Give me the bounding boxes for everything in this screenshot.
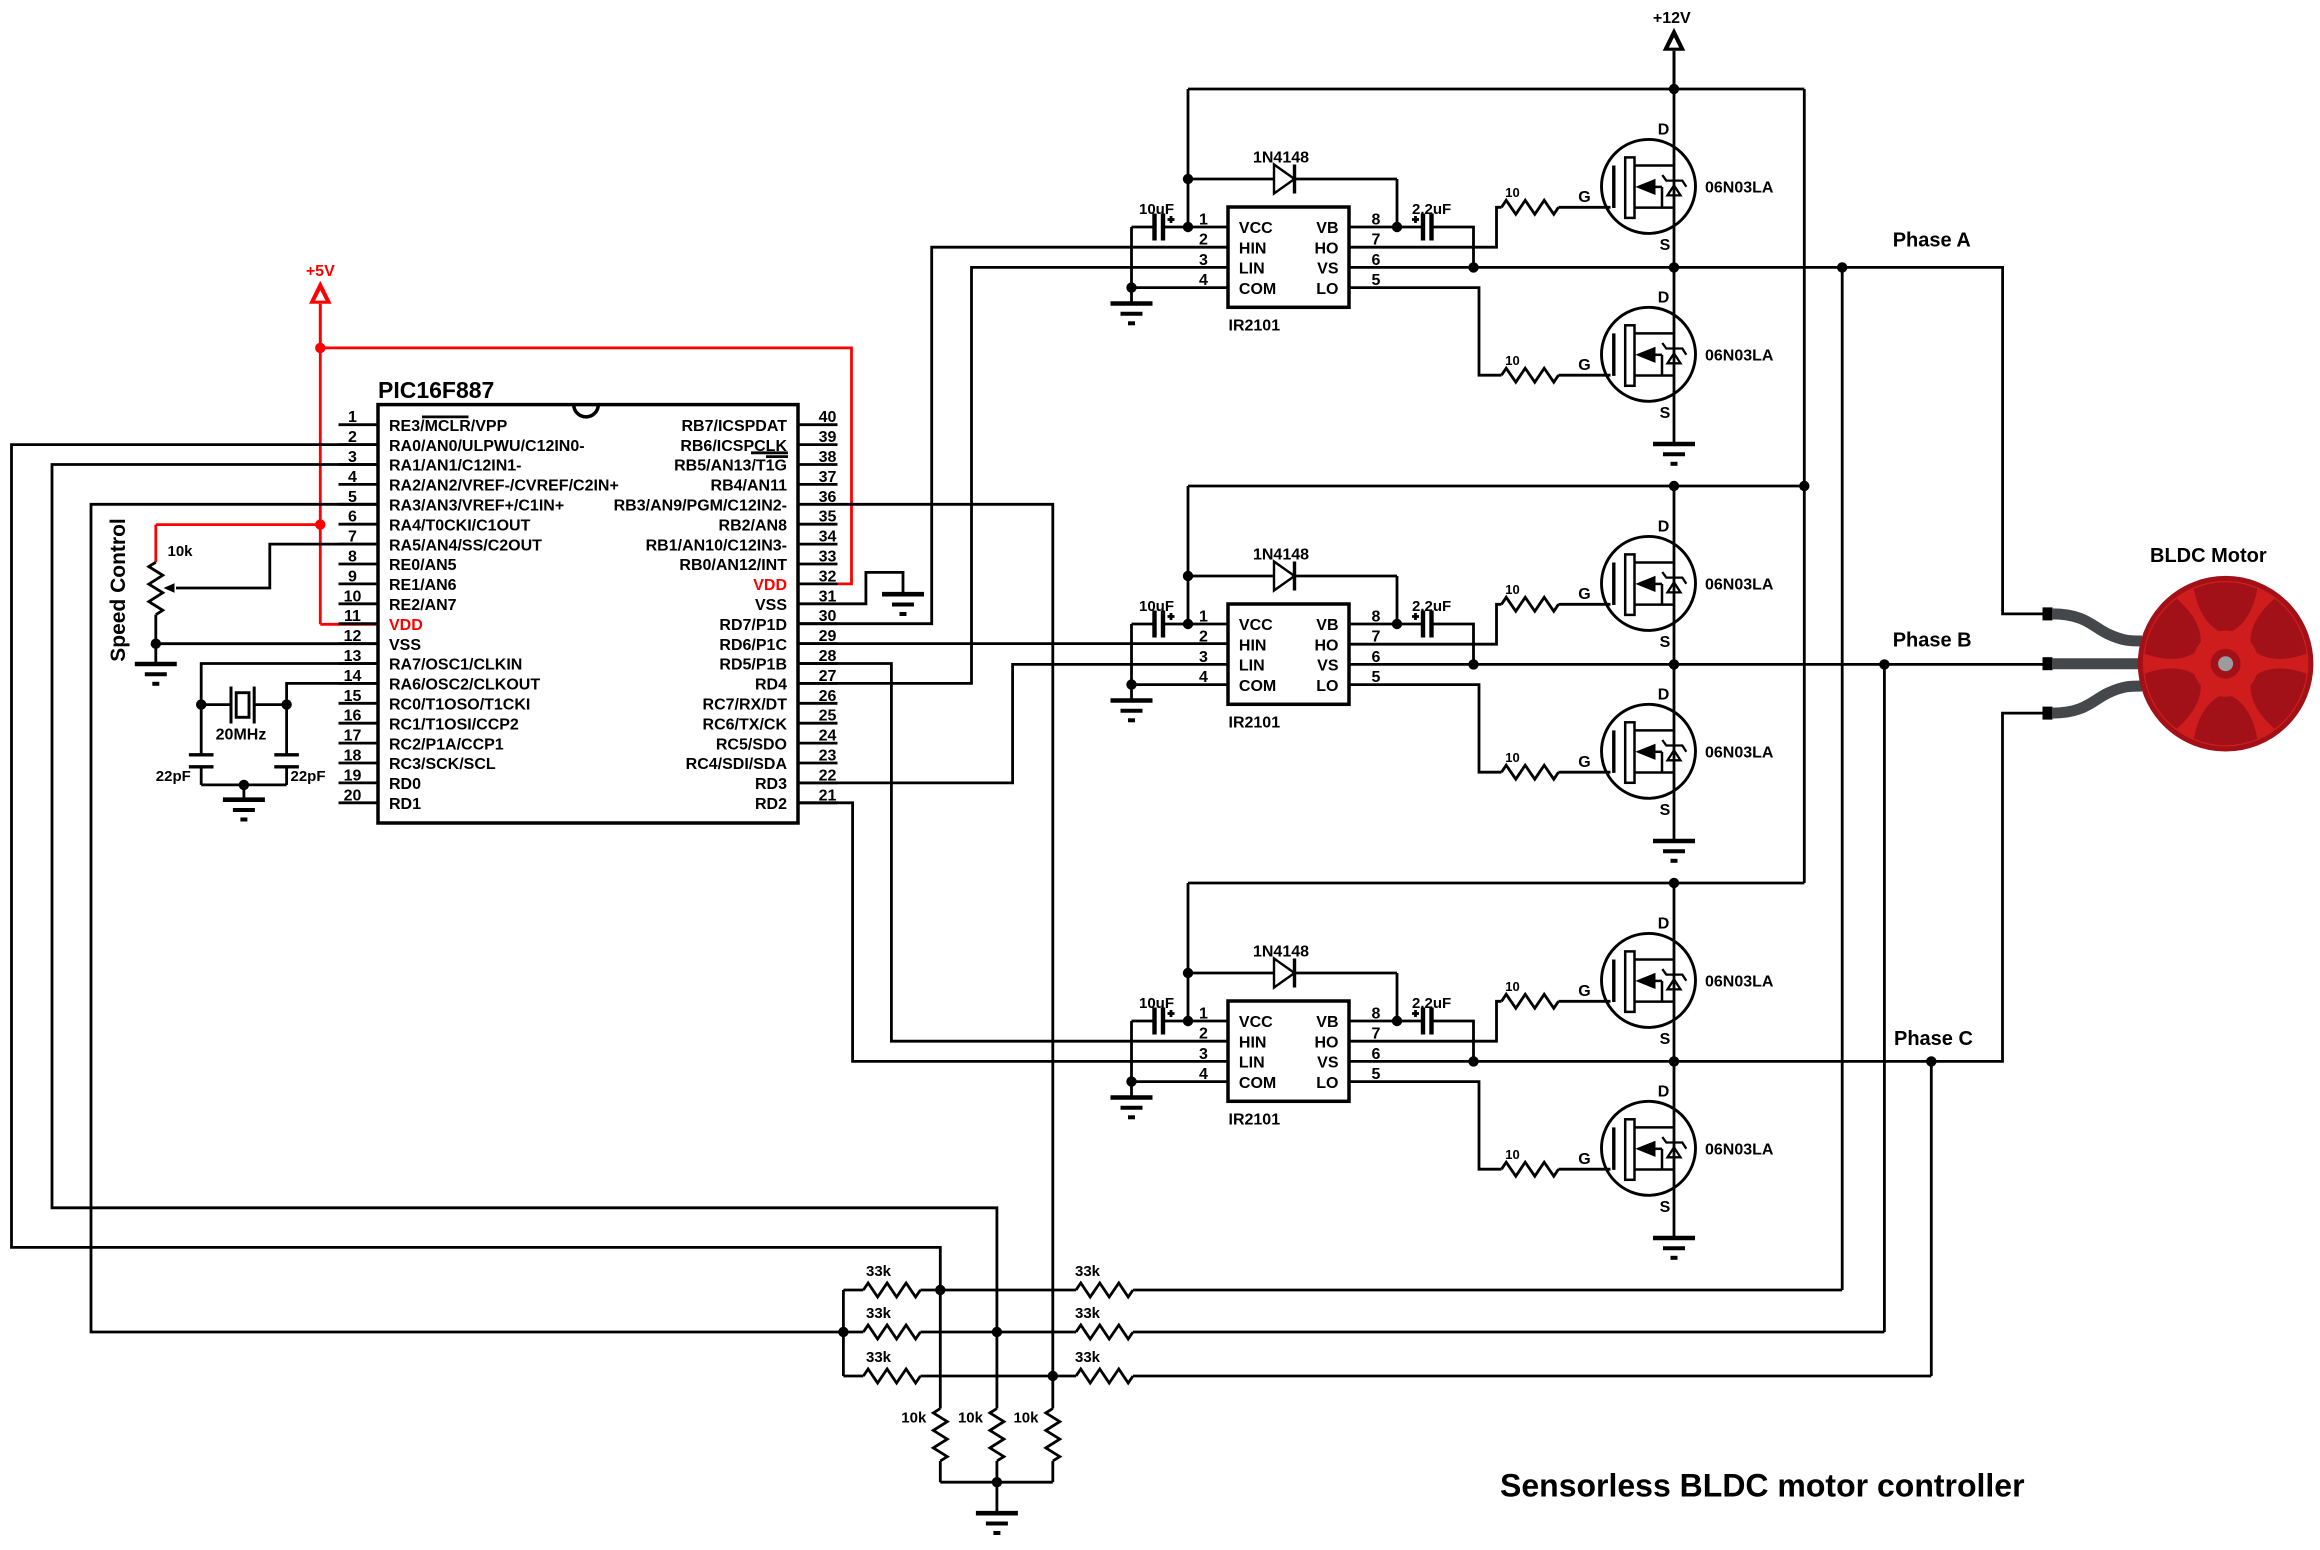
svg-text:RA2/AN2/VREF-/CVREF/C2IN+: RA2/AN2/VREF-/CVREF/C2IN+ (389, 478, 619, 495)
svg-text:RC4/SDI/SDA: RC4/SDI/SDA (686, 756, 788, 773)
svg-text:2.2uF: 2.2uF (1412, 995, 1451, 1012)
resistor 33k phase C row3 (1053, 1349, 1932, 1383)
node divider row3 junction (1048, 1371, 1058, 1381)
svg-text:RD2: RD2 (755, 796, 787, 813)
potentiometer 10k Speed Control (149, 543, 378, 644)
pin 27 RD4 (755, 668, 838, 694)
pin 37 RB4/AN11 (711, 469, 838, 495)
svg-text:10k: 10k (168, 543, 194, 560)
svg-text:D: D (1658, 687, 1670, 704)
svg-text:Phase B: Phase B (1893, 630, 1972, 652)
svg-text:D: D (1658, 519, 1670, 536)
svg-text:S: S (1660, 237, 1671, 254)
wire RD2 pin21 to LIN C (798, 803, 1228, 1062)
wire Phase C to divider row 3 (1930, 1061, 1933, 1376)
wire VB to bootstrap cap section C (1349, 1020, 1423, 1023)
svg-text:HO: HO (1315, 637, 1339, 654)
label Phase C (1894, 1028, 1973, 1050)
svg-text:RE3/MCLR/VPP: RE3/MCLR/VPP (389, 418, 508, 435)
svg-text:VDD: VDD (389, 617, 423, 634)
svg-text:RB7/ICSPDAT: RB7/ICSPDAT (682, 418, 788, 435)
svg-text:Sensorless BLDC motor controll: Sensorless BLDC motor controller (1500, 1468, 2025, 1504)
wire Phase C (1349, 713, 2043, 1061)
capacitor 10uF section B (1132, 598, 1189, 638)
svg-text:23: 23 (819, 748, 837, 765)
resistor 10 low-side gate section B (1502, 750, 1611, 779)
resistor 10k divider C (997, 1376, 1060, 1482)
svg-text:COM: COM (1239, 678, 1276, 695)
svg-text:10: 10 (1505, 582, 1519, 597)
node VCC junction section A (1183, 222, 1193, 232)
svg-text:06N03LA: 06N03LA (1705, 180, 1774, 197)
svg-text:VCC: VCC (1239, 1014, 1273, 1031)
svg-text:1N4148: 1N4148 (1253, 944, 1309, 961)
pin 16 RC1/T1OSI/CCP2 (339, 708, 519, 734)
wire LO to gate resistor section C (1349, 1082, 1502, 1170)
pin 15 RC0/T1OSO/T1CKI (339, 688, 531, 714)
svg-text:LO: LO (1316, 281, 1338, 298)
resistor 10k divider B (958, 1332, 1004, 1482)
svg-text:LIN: LIN (1239, 658, 1265, 675)
svg-text:D: D (1658, 1084, 1670, 1101)
svg-text:6: 6 (348, 509, 357, 526)
node crystal right junction (281, 699, 291, 709)
resistor 10 high-side gate section B (1502, 582, 1611, 611)
svg-text:10: 10 (1505, 750, 1519, 765)
pin 21 RD2 (755, 787, 838, 813)
svg-text:33k: 33k (1075, 1305, 1101, 1322)
IC IR2101 section C (1199, 1001, 1381, 1129)
node Phase B divider tap (1879, 659, 1889, 669)
svg-text:24: 24 (819, 728, 837, 745)
pin 26 RC7/RX/DT (703, 688, 838, 714)
BLDC motor lead wires (2052, 614, 2142, 713)
svg-text:Speed Control: Speed Control (107, 518, 130, 662)
wire Phase B to divider row 2 (1883, 664, 1886, 1332)
svg-text:33: 33 (819, 549, 837, 566)
svg-text:RB4/AN11: RB4/AN11 (711, 478, 788, 495)
svg-text:RB1/AN10/C12IN3-: RB1/AN10/C12IN3- (646, 537, 787, 554)
svg-text:06N03LA: 06N03LA (1705, 577, 1774, 594)
svg-text:VDD: VDD (753, 577, 787, 594)
svg-text:COM: COM (1239, 281, 1276, 298)
wire VCC rail section B (1188, 486, 1228, 624)
node COM junction section A (1126, 282, 1136, 292)
node Phase A divider tap (1837, 262, 1847, 272)
node drain junction at rail section B (1669, 481, 1679, 491)
svg-text:RA4/T0CKI/C1OUT: RA4/T0CKI/C1OUT (389, 517, 531, 534)
svg-text:4: 4 (348, 469, 357, 486)
svg-text:D: D (1658, 290, 1670, 307)
resistor 33k neutral C row3 (843, 1349, 1052, 1383)
svg-text:RB0/AN12/INT: RB0/AN12/INT (679, 557, 787, 574)
svg-text:RD6/P1C: RD6/P1C (719, 637, 787, 654)
svg-text:18: 18 (344, 748, 362, 765)
svg-text:26: 26 (819, 688, 837, 705)
crystal X1 20MHz (201, 687, 286, 744)
svg-text:25: 25 (819, 708, 837, 725)
wire RA3 pin5 to neutral point (91, 504, 843, 1332)
label BLDC Motor (2150, 545, 2267, 567)
transistor Q3 06N03LA high-side section B (1578, 519, 1774, 652)
wire +12V rail section A (1188, 88, 1804, 91)
node VCC junction section B (1183, 619, 1193, 629)
svg-text:G: G (1578, 1151, 1590, 1168)
svg-text:Phase C: Phase C (1894, 1028, 1973, 1050)
svg-text:S: S (1660, 634, 1671, 651)
svg-text:VCC: VCC (1239, 220, 1273, 237)
wire COM to ground section C (1132, 1021, 1229, 1082)
node VB junction section A (1392, 222, 1402, 232)
pin 6 RA4/T0CKI/C1OUT (339, 509, 531, 535)
svg-text:3: 3 (1199, 252, 1208, 269)
svg-text:1: 1 (1199, 212, 1208, 229)
pin 2 RA0/AN0/ULPWU/C12IN0- (339, 429, 585, 455)
svg-text:33k: 33k (866, 1263, 892, 1280)
pin 29 RD6/P1C (719, 628, 837, 654)
svg-text:RA7/OSC1/CLKIN: RA7/OSC1/CLKIN (389, 657, 522, 674)
svg-text:VCC: VCC (1239, 617, 1273, 634)
svg-text:11: 11 (344, 608, 361, 625)
svg-text:2.2uF: 2.2uF (1412, 598, 1451, 615)
label Phase B (1893, 630, 1972, 652)
svg-text:VS: VS (1317, 658, 1339, 675)
svg-text:06N03LA: 06N03LA (1705, 1142, 1774, 1159)
svg-text:34: 34 (819, 529, 837, 546)
svg-text:G: G (1578, 586, 1590, 603)
svg-text:4: 4 (1199, 1066, 1208, 1083)
svg-text:1: 1 (1199, 1006, 1208, 1023)
node VB junction section B (1392, 619, 1402, 629)
capacitor 22pF right (274, 755, 325, 785)
node source junction at phase section C (1669, 1056, 1679, 1066)
wire diode to VB section A (1396, 179, 1399, 227)
pin 1 RE3/MCLR/VPP (339, 409, 508, 435)
pin 39 RB6/ICSPCLK (680, 429, 837, 455)
node crystal ground junction (239, 780, 249, 790)
wire Phase B (1349, 663, 2043, 666)
svg-text:06N03LA: 06N03LA (1705, 348, 1774, 365)
svg-text:06N03LA: 06N03LA (1705, 745, 1774, 762)
svg-text:8: 8 (1372, 212, 1381, 229)
IC IR2101 section A (1199, 207, 1381, 335)
node diode tap section B (1183, 571, 1193, 581)
svg-text:4: 4 (1199, 669, 1208, 686)
svg-text:S: S (1660, 802, 1671, 819)
svg-text:10: 10 (1505, 185, 1519, 200)
svg-text:9: 9 (348, 568, 357, 585)
wire VSS pin12 to pot ground (156, 642, 378, 645)
wire OSC1 pin13 to crystal (201, 664, 378, 755)
transistor Q1 06N03LA high-side section A (1578, 122, 1774, 255)
svg-text:31: 31 (819, 588, 837, 605)
svg-text:RA6/OSC2/CLKOUT: RA6/OSC2/CLKOUT (389, 677, 540, 694)
node diode tap section C (1183, 968, 1193, 978)
svg-text:RC2/P1A/CCP1: RC2/P1A/CCP1 (389, 736, 504, 753)
svg-text:RE1/AN6: RE1/AN6 (389, 577, 457, 594)
ground at low-side source section C (1653, 1238, 1695, 1258)
pin 4 RA2/AN2/VREF-/CVREF/C2IN+ (339, 469, 619, 495)
svg-text:8: 8 (348, 549, 357, 566)
svg-text:RA1/AN1/C12IN1-: RA1/AN1/C12IN1- (389, 458, 521, 475)
svg-text:VS: VS (1317, 261, 1339, 278)
wire VCC rail section A (1188, 89, 1228, 227)
wire low-side source to ground section C (1673, 1061, 1676, 1237)
node pot bottom / VSS junction (151, 639, 161, 649)
ground below 10k resistors (976, 1482, 1018, 1533)
resistor 33k neutral A row1 (843, 1263, 940, 1297)
svg-text:10k: 10k (901, 1410, 927, 1427)
svg-text:HIN: HIN (1239, 240, 1267, 257)
capacitor 10uF section C (1132, 995, 1189, 1035)
svg-text:+5V: +5V (306, 263, 335, 280)
svg-text:S: S (1660, 1199, 1671, 1216)
svg-text:RB2/AN8: RB2/AN8 (719, 517, 788, 534)
svg-text:10uF: 10uF (1139, 598, 1174, 615)
svg-text:06N03LA: 06N03LA (1705, 974, 1774, 991)
svg-text:+12V: +12V (1653, 10, 1691, 27)
node divider row2 junction (992, 1327, 1002, 1337)
wire +12V rail section C (1188, 882, 1804, 885)
svg-text:IR2101: IR2101 (1229, 318, 1281, 335)
power +5V supply symbol (306, 263, 335, 348)
capacitor 2.2uF section B (1412, 598, 1451, 638)
wire Phase A to divider row 1 (1841, 267, 1844, 1290)
wire LO to gate resistor section B (1349, 685, 1502, 773)
node Phase C divider tap (1926, 1056, 1936, 1066)
pin 17 RC2/P1A/CCP1 (339, 728, 504, 754)
svg-text:1: 1 (348, 409, 357, 426)
svg-text:Phase A: Phase A (1893, 230, 1971, 252)
svg-text:RA0/AN0/ULPWU/C12IN0-: RA0/AN0/ULPWU/C12IN0- (389, 438, 585, 455)
svg-text:RE0/AN5: RE0/AN5 (389, 557, 457, 574)
svg-text:10k: 10k (1013, 1410, 1039, 1427)
svg-text:RD5/P1B: RD5/P1B (719, 657, 787, 674)
diode D2 1N4148 section B (1188, 547, 1397, 591)
ground at COM section A (1111, 288, 1153, 324)
svg-text:3: 3 (1199, 649, 1208, 666)
svg-text:LO: LO (1316, 1075, 1338, 1092)
capacitor 2.2uF section C (1412, 995, 1451, 1035)
resistor 10 low-side gate section A (1502, 353, 1611, 382)
svg-text:13: 13 (344, 648, 362, 665)
svg-text:10: 10 (1505, 979, 1519, 994)
wire +12V down-feed to sections B C (1803, 89, 1806, 883)
svg-text:10: 10 (1505, 353, 1519, 368)
svg-text:RA3/AN3/VREF+/C1IN+: RA3/AN3/VREF+/C1IN+ (389, 498, 564, 515)
svg-text:2: 2 (1199, 1026, 1208, 1043)
svg-text:10k: 10k (958, 1410, 984, 1427)
node divider row1 junction (935, 1285, 945, 1295)
pin 28 RD5/P1B (719, 648, 837, 674)
wire +5V rail to VDD pins (red) (156, 348, 852, 624)
svg-text:20: 20 (344, 787, 362, 804)
svg-text:17: 17 (344, 728, 362, 745)
svg-text:RC3/SCK/SCL: RC3/SCK/SCL (389, 756, 496, 773)
node VS junction 2.2uF section B (1468, 659, 1478, 669)
node crystal left junction (196, 699, 206, 709)
wire Phase A (1349, 267, 2043, 614)
svg-text:RC5/SDO: RC5/SDO (716, 736, 787, 753)
wire 2.2uF to VS section A (1432, 227, 1474, 267)
ground below crystal caps (223, 785, 265, 820)
svg-text:VB: VB (1316, 220, 1338, 237)
node +12V junction rail B (1799, 481, 1809, 491)
wire neutral point vertical (842, 1290, 845, 1376)
svg-text:33k: 33k (866, 1305, 892, 1322)
ground at VSS pin31 (882, 594, 924, 614)
pin 40 RB7/ICSPDAT (682, 409, 838, 435)
pin 8 RE0/AN5 (339, 549, 457, 575)
pin 7 RA5/AN4/SS/C2OUT (339, 529, 543, 555)
power +12V supply symbol (1653, 10, 1691, 89)
wire RB3 pin36 to phase C divider (838, 504, 1053, 1376)
transistor Q6 06N03LA low-side section C (1578, 1084, 1774, 1217)
BLDC motor terminals (2043, 607, 2053, 719)
svg-text:RC6/TX/CK: RC6/TX/CK (703, 716, 788, 733)
node +5V junction at rail (315, 343, 325, 353)
pin 25 RC6/TX/CK (703, 708, 838, 734)
pin 34 RB1/AN10/C12IN3- (646, 529, 838, 555)
svg-text:VB: VB (1316, 617, 1338, 634)
svg-text:G: G (1578, 983, 1590, 1000)
svg-text:1N4148: 1N4148 (1253, 547, 1309, 564)
capacitor 22pF left (156, 755, 214, 785)
svg-text:40: 40 (819, 409, 837, 426)
pin 14 RA6/OSC2/CLKOUT (339, 668, 541, 694)
svg-text:33k: 33k (1075, 1349, 1101, 1366)
wire diode to VB section B (1396, 576, 1399, 624)
svg-text:HIN: HIN (1239, 1034, 1267, 1051)
capacitor 10uF section A (1132, 201, 1189, 241)
resistor 33k neutral B row2 (843, 1305, 997, 1339)
node VS junction 2.2uF section C (1468, 1056, 1478, 1066)
wire COM to ground section A (1132, 227, 1229, 288)
svg-text:22pF: 22pF (156, 768, 191, 785)
svg-text:VS: VS (1317, 1055, 1339, 1072)
wire 2.2uF to VS section C (1432, 1021, 1474, 1061)
transistor Q4 06N03LA low-side section B (1578, 687, 1774, 820)
svg-text:LO: LO (1316, 678, 1338, 695)
pin 12 VSS (339, 628, 422, 654)
wire drain rail section C (1673, 883, 1676, 1061)
svg-text:VSS: VSS (389, 637, 421, 654)
svg-text:IR2101: IR2101 (1229, 1112, 1281, 1129)
svg-text:D: D (1658, 916, 1670, 933)
svg-text:10uF: 10uF (1139, 201, 1174, 218)
pin 23 RC4/SDI/SDA (686, 748, 838, 774)
ground at low-side source section A (1653, 444, 1695, 464)
node COM junction section C (1126, 1076, 1136, 1086)
svg-text:10: 10 (1505, 1147, 1519, 1162)
wire LO to gate resistor section A (1349, 288, 1502, 376)
wire COM to ground section B (1132, 624, 1229, 685)
pin 5 RA3/AN3/VREF+/C1IN+ (339, 489, 565, 515)
svg-text:2: 2 (1199, 629, 1208, 646)
svg-text:D: D (1658, 122, 1670, 139)
pin 38 RB5/AN13/T1G (674, 449, 837, 475)
svg-text:VB: VB (1316, 1014, 1338, 1031)
svg-text:PIC16F887: PIC16F887 (378, 377, 494, 403)
pin 35 RB2/AN8 (719, 509, 838, 535)
svg-text:RD4: RD4 (755, 677, 787, 694)
node VS junction 2.2uF section A (1468, 262, 1478, 272)
wire drain rail section B (1673, 486, 1676, 664)
node drain junction at rail section C (1669, 878, 1679, 888)
svg-text:35: 35 (819, 509, 837, 526)
pin 32 VDD (753, 568, 837, 594)
svg-text:RD3: RD3 (755, 776, 787, 793)
svg-text:14: 14 (344, 668, 362, 685)
resistor 33k phase A row1 (940, 1263, 1842, 1297)
svg-text:1: 1 (1199, 609, 1208, 626)
pin 3 RA1/AN1/C12IN1- (339, 449, 522, 475)
resistor 10 low-side gate section C (1502, 1147, 1611, 1176)
svg-text:2: 2 (1199, 232, 1208, 249)
pin 19 RD0 (339, 767, 422, 793)
wire low-side source to ground section B (1673, 664, 1676, 840)
resistor 33k phase B row2 (997, 1305, 1885, 1339)
svg-text:2.2uF: 2.2uF (1412, 201, 1451, 218)
node drain junction at rail section A (1669, 84, 1679, 94)
svg-text:RD7/P1D: RD7/P1D (719, 617, 787, 634)
wire VSS pin31 to ground (838, 572, 904, 603)
wire VB to bootstrap cap section B (1349, 623, 1423, 626)
transistor Q5 06N03LA high-side section C (1578, 916, 1774, 1049)
svg-text:19: 19 (344, 767, 362, 784)
svg-text:8: 8 (1372, 609, 1381, 626)
pin 33 RB0/AN12/INT (679, 549, 837, 575)
diode D1 1N4148 section A (1188, 150, 1397, 194)
pin 11 VDD (339, 608, 423, 634)
resistor 10 high-side gate section C (1502, 979, 1611, 1008)
svg-text:33k: 33k (866, 1349, 892, 1366)
wire RD7 pin30 to HIN A (798, 247, 1228, 624)
svg-text:10uF: 10uF (1139, 995, 1174, 1012)
svg-text:RD1: RD1 (389, 796, 421, 813)
pin 13 RA7/OSC1/CLKIN (339, 648, 523, 674)
svg-text:G: G (1578, 754, 1590, 771)
svg-text:RB3/AN9/PGM/C12IN2-: RB3/AN9/PGM/C12IN2- (614, 498, 787, 515)
wire +12V rail section B (1188, 485, 1804, 488)
svg-text:7: 7 (348, 529, 357, 546)
svg-text:LIN: LIN (1239, 261, 1265, 278)
svg-text:RE2/AN7: RE2/AN7 (389, 597, 457, 614)
wire OSC2 pin14 to crystal (287, 683, 378, 754)
wire RD5 pin28 to HIN C (798, 664, 1228, 1042)
pin 20 RD1 (339, 787, 422, 813)
wire HO to gate resistor section C (1349, 1001, 1502, 1041)
svg-text:G: G (1578, 189, 1590, 206)
wire RA0 pin2 to phase A divider (12, 445, 941, 1290)
svg-text:38: 38 (819, 449, 837, 466)
pin 36 RB3/AN9/PGM/C12IN2- (614, 489, 838, 515)
node +5V junction at pot branch (315, 519, 325, 529)
ground at low-side source section B (1653, 841, 1695, 861)
svg-text:S: S (1660, 1031, 1671, 1048)
resistor 10 high-side gate section A (1502, 185, 1611, 214)
ground below potentiometer (135, 644, 177, 684)
label Speed Control (107, 518, 130, 662)
wire 22pF caps to common ground (201, 784, 286, 787)
svg-text:3: 3 (1199, 1046, 1208, 1063)
wire HO to gate resistor section B (1349, 604, 1502, 644)
pin 22 RD3 (755, 767, 838, 793)
node COM junction section B (1126, 679, 1136, 689)
node diode tap section A (1183, 174, 1193, 184)
svg-text:RB5/AN13/T1G: RB5/AN13/T1G (674, 458, 787, 475)
wire drain rail section A (1673, 89, 1676, 267)
